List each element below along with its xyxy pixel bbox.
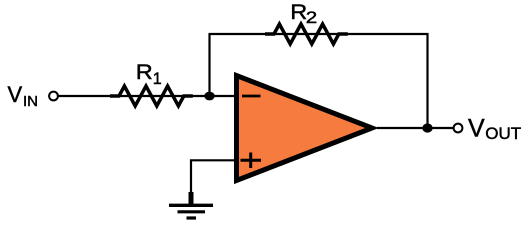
wire non-inverting input: [191, 160, 236, 194]
input terminal circle VIN: [49, 92, 58, 101]
wire feedback left vertical: [208, 34, 210, 97]
svg-text:1: 1: [153, 69, 162, 88]
svg-text:R: R: [136, 61, 153, 84]
svg-text:R: R: [290, 1, 307, 24]
wire feedback right vertical: [426, 33, 428, 128]
op-amp U1 triangle: [237, 76, 373, 181]
wire input VIN to inverting node: [58, 95, 236, 97]
output terminal circle VOUT: [454, 124, 463, 133]
wire output: [377, 127, 453, 129]
node inverting input junction: [204, 92, 214, 101]
node output junction: [422, 123, 432, 132]
svg-text:2: 2: [306, 8, 318, 27]
op-amp U1 non-inverting pin plus: [241, 153, 262, 169]
op-amp U1 inverting pin minus: [242, 95, 261, 98]
ground: [169, 192, 213, 218]
svg-text:V: V: [8, 82, 23, 107]
svg-text:V: V: [468, 115, 485, 143]
svg-text:OUT: OUT: [485, 124, 521, 143]
resistor R2: [265, 24, 348, 44]
wire feedback top horizontal: [209, 33, 429, 35]
svg-text:IN: IN: [23, 93, 38, 110]
resistor R1: [110, 86, 193, 106]
